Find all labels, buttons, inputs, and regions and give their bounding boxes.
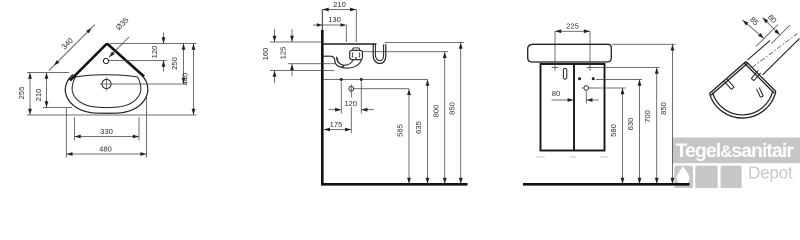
svg-text:120: 120	[150, 46, 159, 59]
svg-text:225: 225	[566, 21, 579, 30]
svg-text:Tegel&sanitair: Tegel&sanitair	[676, 140, 795, 162]
svg-text:850: 850	[659, 102, 668, 115]
svg-text:330: 330	[100, 127, 113, 136]
svg-text:80: 80	[552, 89, 560, 98]
svg-text:440: 440	[181, 73, 190, 86]
svg-text:120: 120	[344, 99, 357, 108]
svg-text:585: 585	[396, 124, 405, 137]
svg-text:850: 850	[448, 102, 457, 115]
svg-text:480: 480	[99, 144, 112, 153]
svg-text:800: 800	[432, 105, 441, 118]
svg-text:130: 130	[328, 15, 341, 24]
svg-text:635: 635	[414, 121, 423, 134]
svg-text:175: 175	[330, 120, 343, 129]
svg-text:210: 210	[34, 89, 43, 102]
svg-text:700: 700	[643, 110, 652, 123]
svg-text:210: 210	[333, 0, 346, 9]
svg-text:250: 250	[170, 57, 179, 70]
svg-text:Depot: Depot	[748, 162, 793, 182]
svg-text:630: 630	[626, 118, 635, 131]
svg-text:125: 125	[279, 47, 288, 60]
svg-text:160: 160	[261, 48, 270, 61]
svg-text:580: 580	[609, 124, 618, 137]
svg-text:255: 255	[17, 87, 26, 100]
